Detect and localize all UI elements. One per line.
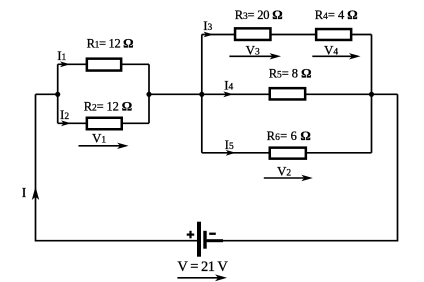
svg-text:I: I <box>22 185 27 200</box>
svg-text:R3= 20 Ω: R3= 20 Ω <box>235 7 283 22</box>
svg-text:V = 21 V: V = 21 V <box>177 259 228 275</box>
svg-text:R4= 4 Ω: R4= 4 Ω <box>315 7 358 22</box>
svg-text:R2= 12 Ω: R2= 12 Ω <box>84 99 132 114</box>
svg-text:R5= 8 Ω: R5= 8 Ω <box>269 66 312 81</box>
svg-text:R1= 12 Ω: R1= 12 Ω <box>87 36 134 51</box>
svg-text:R6= 6 Ω: R6= 6 Ω <box>267 128 311 143</box>
